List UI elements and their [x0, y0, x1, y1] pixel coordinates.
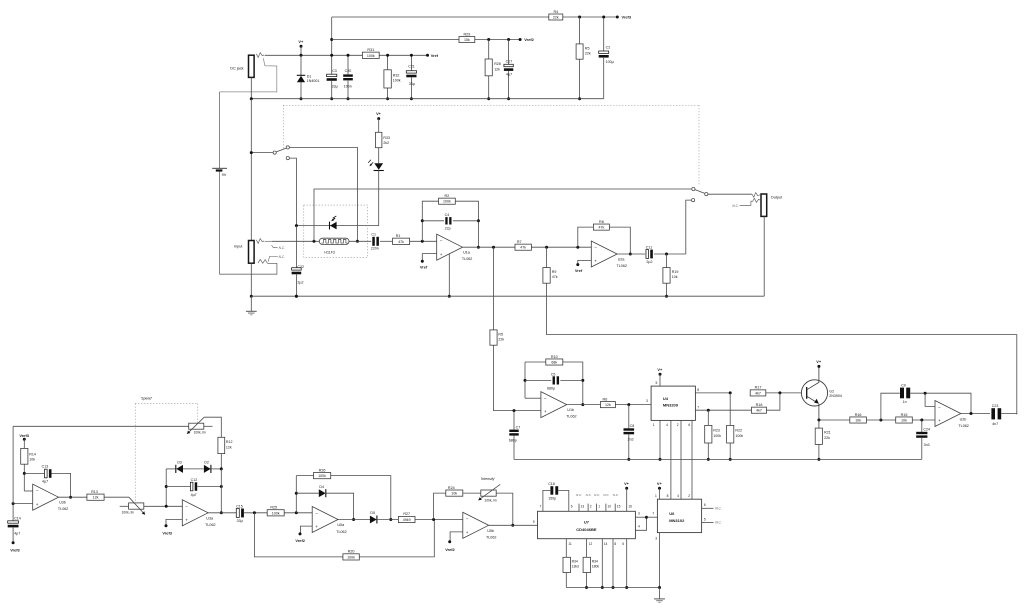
- capacitor C2 100u on Vref3: [603, 17, 605, 51]
- U7 N.C. pin 15: [614, 504, 616, 512]
- svg-text:4µ7: 4µ7: [506, 73, 512, 77]
- U7 N.C. pin 1: [596, 504, 598, 512]
- wire V+ terminal stub: [300, 46, 302, 55]
- resistor R10 68k feedback: [525, 361, 546, 363]
- svg-text:C5: C5: [551, 373, 556, 377]
- svg-text:V+: V+: [657, 481, 663, 486]
- switch SW1a throw to effect input: [286, 146, 289, 149]
- svg-text:3: 3: [646, 399, 648, 403]
- svg-text:+: +: [544, 409, 547, 414]
- wire U3b inverting input: [24, 490, 32, 492]
- wire DC jack sleeve to ground bus: [250, 77, 252, 98]
- resistor R18 4k7: [752, 407, 767, 413]
- resistor R25 100k: [267, 510, 284, 516]
- wire emitter node: [819, 419, 850, 421]
- svg-text:6: 6: [688, 423, 690, 427]
- resistor R14 10k: [23, 439, 25, 448]
- battery 9V: [219, 92, 221, 168]
- svg-text:4: 4: [638, 525, 640, 529]
- svg-text:R28: R28: [494, 62, 501, 66]
- capacitor C13 4u7 feedback: [24, 472, 44, 474]
- wire U5b non-inverting to Vref2: [450, 532, 463, 542]
- U6 pin 5 N.C.: [702, 521, 714, 523]
- svg-text:13: 13: [581, 505, 585, 509]
- svg-text:15k: 15k: [464, 38, 470, 42]
- U4 pin 5 V+: [659, 373, 662, 376]
- capacitor C11 2u2 output: [646, 250, 649, 259]
- svg-text:TL062: TL062: [336, 530, 346, 534]
- svg-text:D4: D4: [319, 485, 324, 489]
- svg-text:−: −: [36, 489, 39, 494]
- svg-text:10k: 10k: [901, 418, 907, 422]
- svg-text:33µ: 33µ: [332, 85, 338, 89]
- svg-text:C8: C8: [630, 424, 635, 428]
- svg-text:TL062: TL062: [462, 257, 472, 261]
- svg-text:12k: 12k: [226, 446, 232, 450]
- input jack ring contact: [258, 259, 268, 263]
- wire R9 to feedback line: [547, 283, 1017, 414]
- svg-text:7: 7: [540, 505, 542, 509]
- resistor R2 100k feedback: [439, 198, 456, 204]
- DC jack: [249, 55, 255, 77]
- wire output jack sleeve to ground: [763, 216, 765, 296]
- capacitor C12 4u7: [166, 486, 190, 488]
- svg-text:C20: C20: [345, 69, 352, 73]
- svg-text:220n: 220n: [371, 246, 379, 250]
- svg-text:+: +: [594, 259, 597, 264]
- wire photoFET to C1: [349, 240, 371, 242]
- svg-text:V+: V+: [657, 367, 663, 372]
- svg-text:1: 1: [653, 423, 655, 427]
- svg-text:MN3209: MN3209: [663, 403, 679, 408]
- svg-text:13k3: 13k3: [572, 565, 579, 569]
- svg-text:H11F3: H11F3: [324, 250, 335, 254]
- svg-text:4k7: 4k7: [756, 409, 762, 413]
- svg-text:R20: R20: [348, 550, 355, 554]
- U4 pin 6 clock wire: [691, 420, 693, 499]
- op-amp U5a TL062: [312, 507, 338, 533]
- potentiometer Speed B 100k lin: [129, 503, 144, 509]
- svg-text:C3: C3: [332, 69, 337, 73]
- svg-text:U2b: U2b: [960, 417, 967, 421]
- DC jack tip contact: [256, 53, 264, 58]
- wire R26/D4 riser: [295, 476, 297, 513]
- input jack ring N.C. contact: [268, 256, 278, 261]
- Vref3 terminal LFO: [23, 438, 26, 441]
- svg-text:1: 1: [598, 505, 600, 509]
- wire dry bypass tap: [314, 189, 692, 241]
- optocoupler H11F3 LED: [329, 222, 331, 230]
- capacitor C23 4n7 feedback out: [991, 408, 995, 419]
- svg-text:100k, lin: 100k, lin: [194, 430, 206, 434]
- svg-text:U1a: U1a: [463, 251, 471, 255]
- capacitor C15 33u: [236, 509, 239, 518]
- U4 pin 8 wire: [695, 392, 730, 394]
- G2 collector V+ terminal: [817, 365, 820, 368]
- svg-text:10k: 10k: [29, 458, 35, 462]
- svg-text:V+: V+: [816, 359, 822, 364]
- wire U2a output: [617, 253, 645, 255]
- svg-text:680p: 680p: [509, 439, 517, 443]
- svg-text:R9: R9: [552, 270, 557, 274]
- svg-text:4k7: 4k7: [755, 391, 761, 395]
- resistor R4 22k Vref3: [549, 14, 563, 20]
- resistor R15 10k: [896, 417, 913, 423]
- svg-text:R17: R17: [755, 386, 762, 390]
- optocoupler H11F3 photoFET: [319, 238, 349, 244]
- wire R7 to U2a: [531, 246, 591, 248]
- wire Intensity to output node: [496, 493, 513, 525]
- svg-text:U5a: U5a: [337, 523, 345, 527]
- svg-text:2µ2: 2µ2: [646, 260, 652, 264]
- svg-text:−: −: [544, 396, 547, 401]
- IC U7 CD4046BE: [538, 511, 636, 538]
- svg-text:12k: 12k: [93, 496, 99, 500]
- svg-text:R16: R16: [855, 413, 862, 417]
- svg-text:C9: C9: [901, 383, 906, 387]
- capacitor C4 22p feedback: [422, 220, 444, 222]
- switch SW1b lever: [695, 190, 705, 194]
- potentiometer Intensity 100k lin: [481, 490, 496, 496]
- svg-text:R4: R4: [553, 10, 558, 14]
- svg-text:8: 8: [697, 388, 699, 392]
- diode D2: [183, 468, 204, 470]
- resistor R28 12k Vref2 divider: [488, 40, 490, 60]
- svg-text:Vref2: Vref2: [445, 547, 455, 552]
- resistor R5 22k Vref3 divider: [579, 17, 581, 44]
- svg-text:1: 1: [655, 494, 657, 498]
- capacitor C9 1n: [881, 393, 900, 420]
- wire Speed A wiper to R12: [204, 417, 221, 437]
- svg-text:R8: R8: [599, 220, 604, 224]
- svg-text:47k: 47k: [552, 275, 558, 279]
- svg-text:2n2: 2n2: [628, 437, 634, 441]
- svg-text:Input: Input: [234, 245, 243, 249]
- svg-text:5: 5: [656, 381, 658, 385]
- resistor R29 15k Vref2: [459, 37, 475, 43]
- svg-text:R6: R6: [603, 397, 608, 401]
- svg-text:Vref3: Vref3: [19, 433, 29, 438]
- wire digital ground bus: [566, 587, 659, 589]
- svg-text:R34: R34: [592, 560, 598, 564]
- svg-text:−: −: [185, 504, 188, 509]
- svg-text:R31: R31: [367, 48, 374, 52]
- svg-text:100k: 100k: [272, 511, 280, 515]
- wire Vref2 rail: [332, 39, 459, 41]
- svg-text:U6: U6: [669, 511, 675, 516]
- U4 pin 1 wire to bus: [659, 420, 661, 459]
- svg-text:2: 2: [677, 423, 679, 427]
- resistor R26 100k: [296, 475, 313, 477]
- resistor R33 2k2 LED dropper: [377, 117, 380, 120]
- svg-text:3: 3: [638, 512, 640, 516]
- wire switch pole feed: [251, 152, 273, 154]
- svg-text:2k2: 2k2: [383, 141, 389, 145]
- ground symbol digital: [659, 588, 661, 599]
- resistor R8 47k feedback: [578, 227, 594, 247]
- svg-text:U3b: U3b: [59, 501, 66, 505]
- svg-text:8: 8: [614, 542, 616, 546]
- svg-text:16: 16: [628, 505, 632, 509]
- wire U3a non-inverting to Vref3: [166, 519, 182, 525]
- svg-text:100k: 100k: [393, 79, 401, 83]
- U6 pin 6 N.C.: [702, 507, 714, 509]
- svg-text:+: +: [315, 524, 318, 529]
- LED light arrows: [370, 162, 373, 165]
- U4 pin 7 wire: [695, 409, 751, 411]
- U7 N.C. pin 13: [578, 504, 580, 512]
- resistor R34 180k: [583, 557, 591, 572]
- svg-text:D5: D5: [370, 511, 375, 515]
- U4 pin 2 clock wire: [680, 420, 682, 499]
- svg-text:R13: R13: [91, 490, 98, 494]
- svg-text:U3a: U3a: [206, 517, 214, 521]
- svg-text:100k: 100k: [347, 555, 355, 559]
- svg-text:33µ: 33µ: [237, 519, 243, 523]
- svg-text:D1: D1: [307, 74, 312, 78]
- V+ terminal: [300, 45, 303, 48]
- optocoupler light arrow: [332, 216, 337, 221]
- resistor R34 13k3: [563, 557, 571, 572]
- resistor R16 10k: [850, 417, 867, 423]
- svg-text:Vref: Vref: [431, 53, 439, 58]
- svg-text:CD4046BE: CD4046BE: [576, 527, 597, 532]
- wire U1a feedback riser: [422, 201, 438, 241]
- resistor R5 22k series: [490, 330, 497, 345]
- svg-text:N.C.: N.C.: [576, 493, 582, 497]
- svg-text:100k: 100k: [713, 434, 721, 438]
- svg-text:100k, lin: 100k, lin: [122, 511, 134, 515]
- IC U4 MN3209 BBD: [651, 386, 695, 420]
- svg-text:100µ: 100µ: [606, 60, 614, 64]
- svg-text:D2: D2: [204, 461, 209, 465]
- svg-text:−: −: [466, 517, 469, 522]
- wire LFO feedback left riser: [12, 426, 14, 521]
- svg-text:C12: C12: [191, 478, 198, 482]
- svg-text:2µ2: 2µ2: [297, 281, 303, 285]
- svg-text:DC jack: DC jack: [230, 66, 243, 70]
- resistor R17 4k7: [750, 390, 766, 396]
- svg-text:+: +: [440, 252, 443, 257]
- svg-text:47k: 47k: [599, 226, 605, 230]
- svg-text:10k: 10k: [855, 418, 861, 422]
- wire V+ rail from DC jack: [265, 54, 428, 56]
- input jack tip N.C. contact: [272, 245, 278, 247]
- wire U1b feedback riser: [525, 397, 541, 399]
- switch SW1a pole: [273, 151, 276, 154]
- resistor R12 12k: [218, 437, 225, 453]
- wire U2b inverting input: [925, 393, 935, 406]
- U7 pin 11 to R34: [565, 539, 567, 558]
- wire U5a output: [338, 519, 370, 521]
- svg-text:Vref3: Vref3: [162, 531, 172, 536]
- Vref3 terminal: [616, 16, 619, 19]
- DC jack switch contact to battery: [220, 58, 277, 92]
- svg-text:R25: R25: [270, 506, 277, 510]
- svg-text:2: 2: [590, 505, 592, 509]
- input jack tip contact: [256, 239, 264, 244]
- svg-text:4µ7: 4µ7: [191, 493, 197, 497]
- wire Speed B to U3a: [144, 505, 183, 507]
- op-amp U2b TL062: [935, 401, 961, 427]
- svg-text:U1b: U1b: [567, 408, 574, 412]
- svg-text:5: 5: [622, 542, 624, 546]
- svg-text:4: 4: [677, 494, 679, 498]
- svg-text:47k: 47k: [398, 240, 404, 244]
- op-amp U3b TL062 LFO: [33, 484, 59, 510]
- switch SW1b pole: [692, 187, 695, 190]
- svg-text:D3: D3: [177, 461, 182, 465]
- svg-text:R7: R7: [517, 240, 522, 244]
- IC U6 MN3102 clock driver: [657, 499, 701, 532]
- svg-text:22p: 22p: [445, 227, 451, 231]
- wire effect output to switch: [686, 200, 692, 254]
- svg-text:+: +: [185, 517, 188, 522]
- svg-text:R23: R23: [713, 428, 720, 432]
- wire Speed B left stub: [120, 505, 129, 507]
- output jack tip contact: [752, 193, 760, 198]
- svg-text:−: −: [440, 239, 443, 244]
- capacitor C24 3n3: [921, 420, 923, 432]
- capacitor C7 680p: [513, 411, 515, 430]
- svg-text:−: −: [938, 405, 941, 410]
- svg-text:100k, lin: 100k, lin: [484, 499, 496, 503]
- svg-text:100k: 100k: [367, 54, 375, 58]
- svg-text:C17: C17: [506, 60, 513, 64]
- switch SW1a lever: [276, 148, 286, 152]
- wire input jack sleeve to ground bus: [250, 263, 252, 296]
- switch SW1b throw effect: [692, 199, 695, 202]
- svg-text:2: 2: [688, 494, 690, 498]
- svg-text:R26: R26: [319, 468, 326, 472]
- input jack: [249, 241, 255, 264]
- svg-text:12k: 12k: [605, 403, 611, 407]
- svg-text:'Speed': 'Speed': [141, 397, 153, 401]
- svg-text:9: 9: [533, 520, 535, 524]
- svg-text:4n7: 4n7: [992, 422, 998, 426]
- svg-text:10: 10: [608, 505, 612, 509]
- svg-text:3n3: 3n3: [924, 443, 930, 447]
- svg-text:15: 15: [617, 505, 621, 509]
- wire U5b output to U7 pin 9: [489, 524, 538, 526]
- wire power ground bus: [251, 98, 603, 100]
- svg-text:Vref3: Vref3: [10, 548, 20, 553]
- svg-text:100k: 100k: [735, 434, 743, 438]
- diode D1 1N4001 reverse protection: [300, 55, 302, 75]
- wire LFO top feedback: [13, 425, 189, 427]
- svg-text:'Intensity': 'Intensity': [481, 477, 496, 481]
- svg-text:V+: V+: [298, 39, 304, 44]
- resistor R22 100k: [729, 393, 731, 426]
- svg-text:Vref2: Vref2: [295, 538, 305, 543]
- svg-text:1n: 1n: [903, 400, 907, 404]
- svg-text:+: +: [466, 530, 469, 535]
- svg-text:22k: 22k: [585, 52, 591, 56]
- svg-text:4µ7: 4µ7: [14, 531, 20, 535]
- svg-text:10k: 10k: [672, 275, 678, 279]
- LED indicator: [378, 148, 380, 164]
- U7 pin 12 to R34b: [586, 539, 588, 558]
- resistor R23 100k: [707, 410, 709, 425]
- svg-text:R34: R34: [572, 560, 578, 564]
- svg-text:Output: Output: [771, 196, 783, 200]
- svg-text:680p: 680p: [547, 386, 555, 390]
- svg-text:C15: C15: [236, 504, 243, 508]
- svg-text:TL062: TL062: [958, 424, 968, 428]
- svg-text:+: +: [36, 502, 39, 507]
- ground symbol: [250, 296, 252, 311]
- resistor R13 12k: [87, 494, 104, 500]
- svg-text:C1: C1: [371, 232, 376, 236]
- svg-text:1N4001: 1N4001: [307, 79, 320, 83]
- svg-text:TL062: TL062: [617, 264, 627, 268]
- svg-text:R33: R33: [383, 136, 390, 140]
- svg-text:22k: 22k: [553, 15, 559, 19]
- dotted gang link stomp switch: [282, 105, 284, 150]
- svg-text:180k: 180k: [592, 565, 600, 569]
- svg-text:MN3102: MN3102: [669, 518, 685, 523]
- optocoupler H11F3 dotted outline: [304, 205, 368, 257]
- svg-text:−: −: [315, 511, 318, 516]
- svg-text:14: 14: [604, 542, 608, 546]
- op-amp U1a TL062: [437, 234, 463, 260]
- svg-text:100k: 100k: [318, 474, 326, 478]
- resistor R31 100k Vref divider: [362, 52, 379, 58]
- wire U1a output: [463, 246, 516, 248]
- diode D5: [370, 516, 377, 524]
- svg-text:12: 12: [589, 542, 593, 546]
- svg-text:R32: R32: [393, 73, 400, 77]
- resistor R24 10k: [434, 493, 446, 519]
- resistor R32 100k Vref divider: [387, 55, 389, 70]
- svg-text:5: 5: [704, 517, 706, 521]
- svg-text:N.C.: N.C.: [715, 507, 721, 511]
- svg-text:22k: 22k: [498, 338, 504, 342]
- capacitor C17 4u7 on Vref2: [508, 40, 510, 65]
- resistor R9 47k: [546, 247, 548, 267]
- capacitor C3 33u filter: [327, 74, 337, 76]
- wire bias bus BBD section: [514, 458, 922, 460]
- svg-text:R2: R2: [445, 194, 450, 198]
- capacitor C21 33u on Vref: [410, 55, 412, 70]
- U7 pin 16 V+: [625, 487, 628, 490]
- svg-text:R14: R14: [29, 452, 36, 456]
- svg-text:22k: 22k: [824, 436, 830, 440]
- U6 pin 1 V+: [658, 487, 661, 490]
- capacitor C22 2u2: [295, 226, 297, 270]
- resistor R19 10k: [666, 254, 668, 268]
- svg-text:100n: 100n: [344, 85, 352, 89]
- svg-text:R27: R27: [403, 512, 410, 516]
- svg-text:+: +: [938, 418, 941, 423]
- resistor R7 47k: [515, 244, 531, 250]
- resistor R1 47k: [393, 238, 410, 244]
- svg-text:8: 8: [667, 494, 669, 498]
- wire ground spine: [250, 99, 252, 241]
- capacitor C20 100n filter: [347, 55, 349, 74]
- svg-text:4: 4: [666, 423, 668, 427]
- wire Vref3 rail: [332, 16, 549, 18]
- wire U3b non-inverting input: [13, 503, 33, 505]
- resistor R6 12k: [600, 402, 615, 408]
- svg-text:R12: R12: [226, 440, 233, 444]
- wire input signal to photoFET: [272, 240, 320, 242]
- svg-text:R5: R5: [585, 46, 590, 50]
- wire U3b output: [59, 496, 87, 498]
- svg-text:N.C.: N.C.: [603, 493, 609, 497]
- svg-text:Vref2: Vref2: [524, 37, 534, 42]
- svg-text:C14: C14: [14, 517, 21, 521]
